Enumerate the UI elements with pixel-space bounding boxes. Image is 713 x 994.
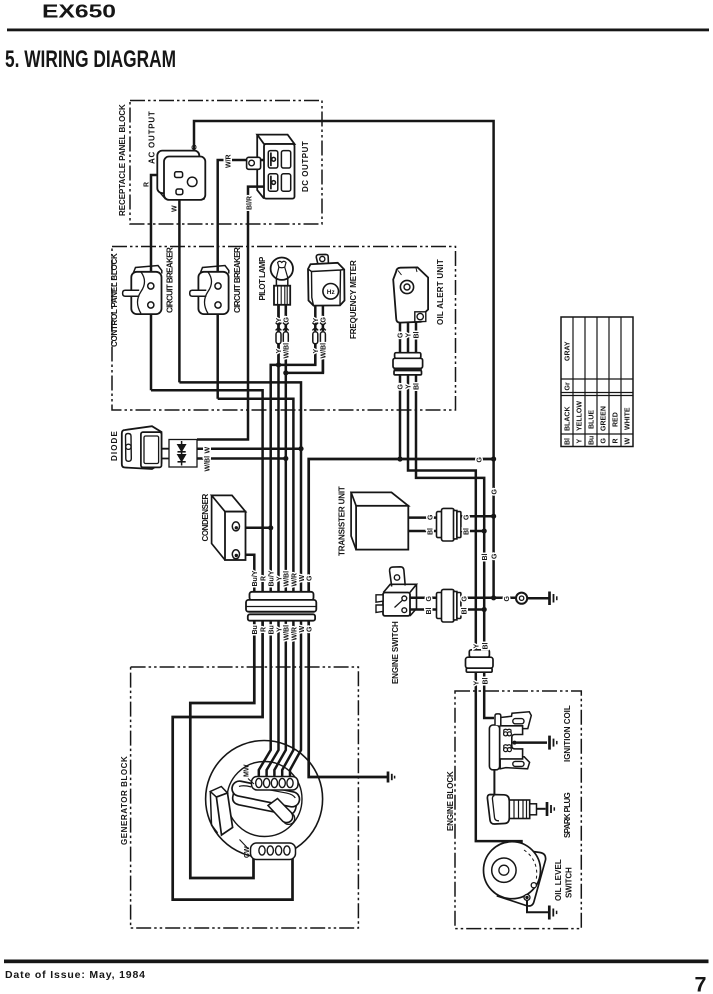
svg-text:CONDENSER: CONDENSER xyxy=(201,493,210,541)
brush holder block xyxy=(210,787,232,836)
wire: oil alert unit three leads to its connector xyxy=(400,323,416,353)
wire: pilot lamp Y lead down to pin 4 xyxy=(277,305,280,592)
svg-text:CIRCUIT BREAKER: CIRCUIT BREAKER xyxy=(233,247,242,313)
svg-text:DC OUTPUT: DC OUTPUT xyxy=(301,141,310,192)
svg-text:G: G xyxy=(320,317,327,323)
svg-text:Bu: Bu xyxy=(589,436,596,445)
svg-text:W: W xyxy=(625,438,632,445)
wire: W/R from DC output down to breaker 2 xyxy=(218,160,271,399)
junction dot diode W xyxy=(298,446,303,451)
svg-text:G: G xyxy=(307,626,314,632)
svg-text:W: W xyxy=(299,575,306,582)
svg-text:FREQUENCY METER: FREQUENCY METER xyxy=(349,260,358,339)
wire: condenser top to pin 3 xyxy=(238,527,271,530)
svg-text:G: G xyxy=(601,438,608,444)
spark plug boot xyxy=(487,795,509,825)
generator stator circle xyxy=(206,741,323,858)
svg-text:G: G xyxy=(491,553,498,559)
ground symbol at ignition coil xyxy=(550,736,557,750)
transister connector xyxy=(437,508,461,541)
svg-text:5. WIRING DIAGRAM: 5. WIRING DIAGRAM xyxy=(5,46,176,73)
diode symbols xyxy=(162,441,186,466)
svg-text:Bl: Bl xyxy=(426,607,433,614)
svg-text:Y: Y xyxy=(313,318,320,323)
svg-text:YELLOW: YELLOW xyxy=(577,401,584,431)
svg-text:SPARK PLUG: SPARK PLUG xyxy=(563,792,572,838)
svg-text:W/R: W/R xyxy=(291,573,298,587)
ground symbol at generator xyxy=(388,772,395,783)
junction dot engine switch Bl xyxy=(482,607,487,612)
wire: engine switch connector G to ring terminal and ground xyxy=(461,597,517,600)
svg-text:W: W xyxy=(299,626,306,633)
svg-text:GREEN: GREEN xyxy=(601,406,608,431)
wire: engine block Bl lead from connector to ignition coil xyxy=(484,672,494,719)
junction dot pilot W/Bl xyxy=(283,370,288,375)
svg-text:G: G xyxy=(192,144,199,150)
engine block connector xyxy=(466,650,494,672)
svg-text:Y: Y xyxy=(276,576,283,581)
svg-text:G: G xyxy=(428,514,435,520)
svg-text:Y: Y xyxy=(276,318,283,323)
wire: freq meter Y lead upper xyxy=(314,305,317,331)
svg-text:W/Bl: W/Bl xyxy=(205,456,212,472)
oil alert connector xyxy=(393,353,423,375)
svg-text:Y: Y xyxy=(406,384,413,389)
svg-text:R: R xyxy=(261,627,268,632)
svg-text:G: G xyxy=(398,384,405,390)
svg-text:Bu/Y: Bu/Y xyxy=(269,570,276,586)
svg-text:RECEPTACLE PANEL BLOCK: RECEPTACLE PANEL BLOCK xyxy=(118,104,127,216)
pilot lamp xyxy=(271,258,293,305)
wires through bullets to junction rows xyxy=(279,344,323,373)
svg-text:ENGINE SWITCH: ENGINE SWITCH xyxy=(391,621,400,684)
wire: connector pin leads below into generator block xyxy=(190,621,254,879)
control panel block border xyxy=(112,247,456,411)
svg-text:Bl: Bl xyxy=(482,677,489,684)
svg-text:7: 7 xyxy=(695,973,707,994)
footer rule xyxy=(4,960,709,964)
svg-text:OIL ALERT UNIT: OIL ALERT UNIT xyxy=(436,259,445,325)
MW coil slot xyxy=(252,777,299,791)
oil alert unit xyxy=(393,267,428,322)
wire: pilot lamp leads upper xyxy=(279,305,286,331)
svg-text:W/Bl: W/Bl xyxy=(320,343,327,359)
svg-text:Bl: Bl xyxy=(482,642,489,649)
svg-text:R: R xyxy=(144,182,151,187)
generator block border xyxy=(131,667,359,928)
ground symbol at engine switch xyxy=(550,592,557,606)
wire: oil alert G lead to G bus xyxy=(399,375,402,459)
svg-text:G: G xyxy=(477,457,484,463)
diode assembly xyxy=(122,426,197,469)
wire: Bl/R from DC output down to diode xyxy=(197,187,271,440)
wire: condenser bottom to pin 1 xyxy=(238,555,254,592)
oil level switch xyxy=(484,842,546,906)
wire: engine switch connector Bl junction xyxy=(461,608,485,611)
svg-text:Bl: Bl xyxy=(414,331,421,338)
DC output module xyxy=(247,135,295,199)
wire: pin 2 wrap to CW coil right xyxy=(173,621,293,900)
junction dot engine switch G at main G wire xyxy=(491,595,496,600)
svg-text:Bu/Y: Bu/Y xyxy=(252,570,259,586)
svg-text:Gr: Gr xyxy=(565,382,572,390)
svg-text:CIRCUIT BREAKER: CIRCUIT BREAKER xyxy=(166,247,175,313)
svg-text:G: G xyxy=(283,317,290,323)
junction dot oil alert G xyxy=(397,456,402,461)
ground symbol at spark plug xyxy=(547,802,554,816)
svg-text:G: G xyxy=(307,575,314,581)
svg-text:R: R xyxy=(613,438,620,443)
junction dot pilot Y xyxy=(276,362,281,367)
svg-text:G: G xyxy=(462,596,469,602)
svg-text:G: G xyxy=(398,332,405,338)
svg-text:Bu: Bu xyxy=(252,625,259,634)
svg-text:PILOT LAMP: PILOT LAMP xyxy=(258,256,267,300)
spark plug body xyxy=(509,800,545,819)
svg-text:CONTROL PANEL BLOCK: CONTROL PANEL BLOCK xyxy=(110,253,119,347)
svg-text:Bl: Bl xyxy=(565,438,572,445)
wire: engine block Y lead from connector to oil level switch xyxy=(476,672,522,857)
svg-text:Hz: Hz xyxy=(327,289,336,296)
wire: bus row C (W/R) to connector pin 6 xyxy=(218,399,294,592)
svg-text:Y: Y xyxy=(276,627,283,632)
wire: AC outlet G up and across top to right side xyxy=(194,121,494,459)
svg-text:GRAY: GRAY xyxy=(565,341,572,361)
circuit breaker 1 xyxy=(123,266,162,315)
svg-text:W/R: W/R xyxy=(291,627,298,641)
svg-text:Bl: Bl xyxy=(482,553,489,560)
wire: bus row B (R) to connector pin 2 xyxy=(151,390,263,592)
engine block border xyxy=(455,691,581,929)
main multi-pin connector xyxy=(246,592,316,621)
svg-text:W/Bl: W/Bl xyxy=(283,343,290,359)
CW coil slot xyxy=(251,843,296,860)
junction dot transister Bl xyxy=(482,528,487,533)
svg-text:Y: Y xyxy=(474,681,481,686)
svg-text:TRANSISTER UNIT: TRANSISTER UNIT xyxy=(338,486,347,556)
wire: diode W output to pin 7 xyxy=(197,447,301,450)
wire: oil alert Bl lead down right xyxy=(416,375,484,650)
svg-text:Date of Issue: May, 1984: Date of Issue: May, 1984 xyxy=(5,969,145,981)
svg-text:GENERATOR BLOCK: GENERATOR BLOCK xyxy=(120,756,129,845)
rotor shaft xyxy=(268,799,295,825)
wire: Y junction row pilot/freq to pin 3 xyxy=(271,344,316,592)
svg-text:G: G xyxy=(491,489,498,495)
svg-text:W/R: W/R xyxy=(226,154,233,168)
ring terminal xyxy=(516,593,527,604)
svg-text:W: W xyxy=(205,447,212,454)
wire: G vertical lower part to engine switch junction xyxy=(492,459,495,598)
svg-text:SWITCH: SWITCH xyxy=(565,867,574,898)
wire: transister connector G to main G wire xyxy=(461,515,494,518)
svg-text:EX650: EX650 xyxy=(42,1,116,22)
wire: G bus from pin 8 to right vertical xyxy=(309,459,494,592)
svg-text:G: G xyxy=(464,514,471,520)
svg-text:BLACK: BLACK xyxy=(565,407,572,432)
svg-text:Y: Y xyxy=(474,644,481,649)
wire: pilot lamp W/Bl lead down to pin 5 xyxy=(285,305,288,592)
svg-text:Bl/R: Bl/R xyxy=(247,196,254,210)
svg-text:Y: Y xyxy=(406,333,413,338)
wire: W/Bl junction row pilot/freq xyxy=(286,344,323,373)
svg-text:Y: Y xyxy=(276,349,283,354)
terminal dot on oil level switch xyxy=(520,854,524,858)
legend table xyxy=(561,317,633,447)
svg-text:G: G xyxy=(504,596,511,602)
rotor armature bar xyxy=(229,780,301,817)
svg-text:RED: RED xyxy=(613,412,620,427)
junction dot G bus right xyxy=(491,456,496,461)
wire: engine switch leads to connector xyxy=(409,598,437,610)
svg-text:OIL LEVEL: OIL LEVEL xyxy=(554,859,563,901)
svg-text:W/Bl: W/Bl xyxy=(284,571,291,587)
oil level switch ground wire xyxy=(527,900,548,912)
spark plug lead from coil xyxy=(493,770,495,796)
wire: ring terminal to ground xyxy=(527,597,548,600)
header rule xyxy=(7,29,709,32)
engine switch xyxy=(376,567,417,616)
svg-text:W/Bl: W/Bl xyxy=(284,625,291,641)
svg-text:Bu: Bu xyxy=(269,625,276,634)
ignition coil xyxy=(489,712,531,770)
bullet connectors on four leads xyxy=(276,332,325,344)
junction dot condenser xyxy=(268,525,273,530)
svg-text:DIODE: DIODE xyxy=(110,431,119,461)
svg-text:BLUE: BLUE xyxy=(589,410,596,429)
svg-text:Bl: Bl xyxy=(414,383,421,390)
svg-text:W: W xyxy=(172,205,179,212)
circuit breaker 2 xyxy=(190,266,229,315)
wire: pin 8 G to generator ground xyxy=(309,621,387,778)
wire: transister unit leads to connector xyxy=(408,518,437,531)
wire: R from outlet down to breaker 1 xyxy=(151,175,175,390)
chevron connector symbols on four leads xyxy=(276,323,326,331)
receptacle panel block border xyxy=(130,101,322,225)
wire: oil alert Y lead to engine block connector xyxy=(408,375,476,650)
svg-text:IGNITION COIL: IGNITION COIL xyxy=(563,705,572,762)
svg-text:MW: MW xyxy=(244,764,251,777)
AC outlet receptacle xyxy=(157,151,205,200)
svg-text:G: G xyxy=(426,596,433,602)
ground symbol at oil level switch xyxy=(549,906,556,920)
svg-text:Y: Y xyxy=(313,349,320,354)
svg-text:Bl: Bl xyxy=(428,528,435,535)
svg-text:Bl: Bl xyxy=(464,528,471,535)
junction dot transister G xyxy=(491,514,496,519)
svg-text:AC OUTPUT: AC OUTPUT xyxy=(148,111,157,164)
transister unit box xyxy=(351,492,408,549)
condenser xyxy=(212,495,246,560)
svg-text:Y: Y xyxy=(577,439,584,444)
wire: transister connector Bl to Bl wire xyxy=(461,530,485,533)
wire: freq meter W/Bl lead upper xyxy=(322,305,325,331)
svg-text:ENGINE BLOCK: ENGINE BLOCK xyxy=(446,771,455,831)
wire: diode W/Bl output to pin 5 xyxy=(197,457,286,460)
svg-text:Bl: Bl xyxy=(462,607,469,614)
wire: pins 3-7 down to MW coil xyxy=(259,621,301,780)
svg-text:R: R xyxy=(261,576,268,581)
wire: bus row A (W) to connector pin 7 xyxy=(179,382,301,592)
engine switch connector xyxy=(437,589,461,622)
svg-text:WHITE: WHITE xyxy=(625,407,632,430)
wire: W from outlet down xyxy=(178,193,181,382)
frequency meter xyxy=(308,254,345,305)
ignition coil ground wire xyxy=(514,741,548,744)
generator rotor circle xyxy=(227,762,302,837)
junction dot diode W/Bl xyxy=(283,456,288,461)
